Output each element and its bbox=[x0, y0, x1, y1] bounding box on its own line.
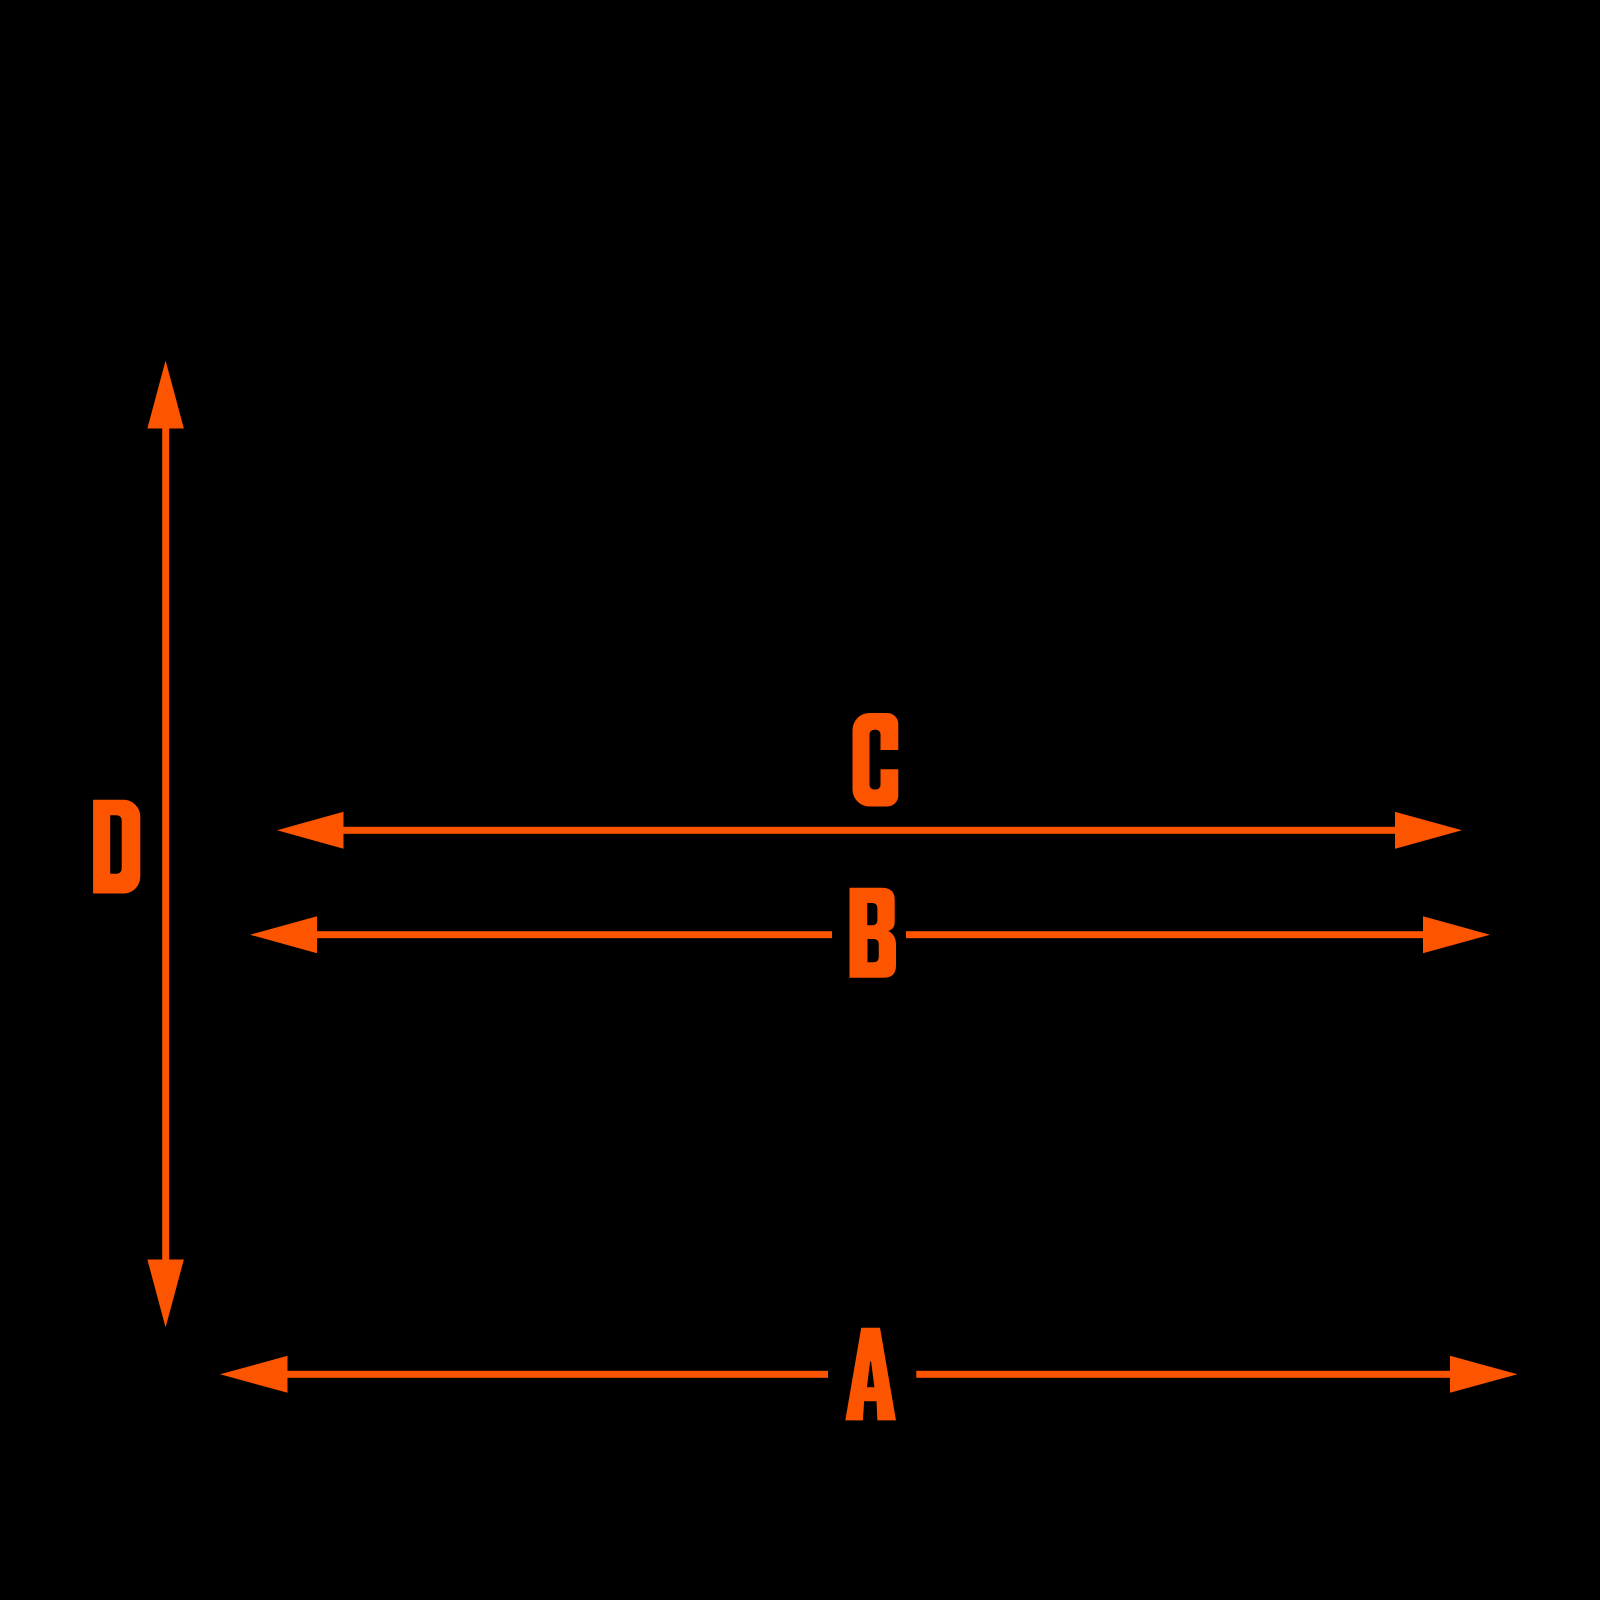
arrowhead B left bbox=[250, 916, 317, 953]
label A bbox=[845, 1328, 896, 1421]
arrowhead C right bbox=[1395, 812, 1462, 849]
arrowhead D top bbox=[147, 361, 184, 429]
dimension arrow C (horizontal double-headed) bbox=[277, 812, 1462, 849]
arrowhead D bottom bbox=[147, 1260, 184, 1328]
arrowhead C left bbox=[277, 812, 344, 849]
wire right segment bbox=[906, 931, 1424, 938]
wire left segment bbox=[317, 931, 833, 938]
arrowhead A right bbox=[1450, 1356, 1518, 1393]
dimension arrow D (vertical double-headed) bbox=[147, 361, 184, 1328]
arrowhead A left bbox=[220, 1356, 288, 1393]
dimension arrow B (horizontal double-headed, broken by label) bbox=[250, 916, 1490, 953]
wire bbox=[162, 428, 169, 1260]
wire right segment bbox=[916, 1371, 1450, 1378]
label D bbox=[93, 800, 140, 894]
wire left segment bbox=[288, 1371, 829, 1378]
wire bbox=[343, 827, 1396, 834]
dimension arrow A (horizontal double-headed, broken by label) bbox=[220, 1356, 1518, 1393]
label B bbox=[850, 888, 897, 978]
label C bbox=[853, 713, 900, 807]
arrowhead B right bbox=[1423, 916, 1490, 953]
